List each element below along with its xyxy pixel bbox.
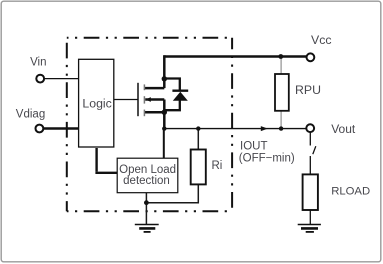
svg-text:Logic: Logic	[82, 96, 111, 110]
svg-text:RPU: RPU	[295, 83, 321, 97]
svg-text:IOUT: IOUT	[240, 140, 267, 152]
svg-text:(OFF−min): (OFF−min)	[239, 153, 295, 165]
svg-text:Ri: Ri	[212, 160, 223, 172]
svg-text:detection: detection	[123, 175, 170, 187]
svg-text:RLOAD: RLOAD	[331, 185, 370, 197]
svg-text:Vin: Vin	[30, 57, 46, 69]
svg-text:Vcc: Vcc	[311, 33, 332, 47]
svg-text:Vout: Vout	[331, 122, 356, 136]
svg-text:Vdiag: Vdiag	[16, 108, 45, 120]
